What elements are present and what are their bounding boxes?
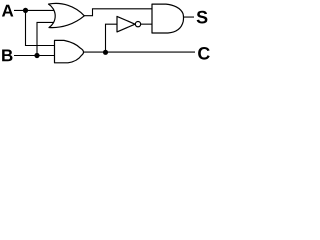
- node B junction dot: [34, 53, 39, 58]
- wire S output: [183, 16, 194, 18]
- wire A branch down: [26, 10, 56, 45]
- wire junction up to inverter: [106, 24, 118, 52]
- wire B branch up: [37, 22, 55, 55]
- node carry junction dot: [103, 50, 108, 55]
- wire A input: [14, 9, 55, 11]
- wire B input: [14, 55, 55, 57]
- node B label: [2, 50, 12, 62]
- wire C output: [83, 51, 195, 53]
- and-gate U2 (A AND B): [55, 40, 84, 62]
- wire inverter output to top AND lower input: [141, 23, 152, 25]
- node A label: [2, 5, 13, 17]
- not-gate U3 bubble: [135, 22, 140, 27]
- node S label: [197, 11, 208, 24]
- node C label: [198, 47, 210, 60]
- node A junction dot: [23, 8, 28, 13]
- wire OR output to top AND upper input: [84, 9, 152, 16]
- or-gate U1 (A OR B): [49, 3, 85, 27]
- not-gate U3 inverter triangle: [117, 16, 135, 32]
- and-gate U4 (sum output): [152, 4, 184, 33]
